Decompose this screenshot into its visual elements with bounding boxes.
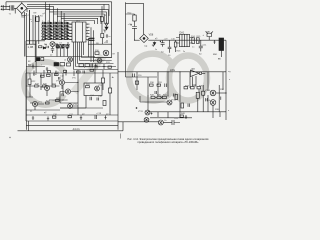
- resistor R29 vertical: [103, 101, 106, 106]
- svg-text:2к: 2к: [183, 51, 185, 53]
- svg-text:14: 14: [70, 30, 72, 32]
- svg-text:VТ11: VТ11: [138, 111, 144, 113]
- wire y102: [140, 96, 167, 102]
- cap C22: [219, 97, 221, 100]
- cap C12: [59, 77, 60, 80]
- svg-text:4: 4: [87, 36, 88, 38]
- resistor R16: [41, 75, 45, 77]
- wire y122 with transistor: [118, 121, 158, 123]
- resistor R12 on rail: [133, 15, 136, 21]
- cap right of R31: [165, 84, 167, 88]
- resistor R36 vertical: [196, 92, 199, 98]
- rail x158 x168 x180: [158, 72, 190, 118]
- svg-text:12: 12: [70, 36, 72, 38]
- op-amp DA2 triangle: [190, 70, 199, 76]
- nested loop 2: [50, 4, 107, 24]
- svg-text:т: т: [41, 65, 42, 67]
- top right drop rails: [104, 2, 112, 32]
- svg-text:к: к: [31, 21, 32, 23]
- resistor R6: [57, 46, 60, 48]
- resistor R21: [52, 85, 56, 87]
- transistor VT4: [44, 85, 49, 90]
- rail x134.5 tap: [126, 14, 135, 15]
- resistor R35: [197, 87, 201, 89]
- transistor VT11: [145, 110, 150, 115]
- left frame rail: [25, 12, 27, 130]
- resistor R34: [191, 87, 195, 89]
- resistor R on x102 rail: [101, 17, 104, 22]
- transistor VT3: [103, 50, 109, 56]
- component designator labels top-left section: [9, 12, 46, 24]
- page corner speck: [9, 137, 10, 138]
- diode on rail x106: [103, 25, 108, 32]
- small comps cluster below rails: [101, 34, 104, 38]
- transistor VT15: [158, 120, 163, 125]
- cap C10 vertical: [168, 40, 172, 53]
- keypad button labels above matrix rows: [42, 21, 65, 40]
- svg-text:б: б: [53, 38, 54, 40]
- nested loop 6: [64, 13, 94, 24]
- svg-text:кн: кн: [109, 36, 111, 38]
- top bus wires: [6, 2, 112, 10]
- box on rail x137: [135, 81, 138, 84]
- wire bridge top to top bus: [21, 2, 23, 3]
- junction dots net: [147, 95, 148, 96]
- resistor R39: [151, 96, 155, 98]
- wires bottom-left box: [26, 70, 86, 115]
- resistor R30: [150, 84, 154, 86]
- transistor VT1: [50, 42, 55, 47]
- diode VD9 below wire: [152, 42, 156, 47]
- left frame bottom verticals: [27, 121, 29, 131]
- svg-text:приведенного телефонного аппар: приведенного телефонного аппарата «ТК-10…: [138, 140, 200, 144]
- resistor R9: [95, 52, 99, 55]
- wire into bridge left: [135, 39, 140, 41]
- transistor VT6: [59, 80, 64, 85]
- lower bus lines: [74, 58, 119, 70]
- cap C13: [62, 94, 63, 97]
- transistor VT7: [32, 101, 37, 106]
- svg-text:0: 0: [53, 32, 54, 34]
- svg-text:9: 9: [42, 32, 43, 34]
- svg-text:1н: 1н: [192, 47, 194, 49]
- mid row comp cluster: [56, 45, 70, 49]
- right tick vertical x123: [122, 122, 124, 131]
- matrix column rails: [46, 23, 68, 40]
- cap C11 below: [198, 40, 203, 51]
- svg-text:6: 6: [42, 26, 43, 28]
- wire bridge right vertex down: [26, 8, 28, 12]
- wire y66.5 left: [26, 66, 45, 68]
- rail x148: [147, 77, 149, 111]
- svg-text:DA1: DA1: [180, 31, 185, 34]
- svg-text:+С18: +С18: [96, 113, 102, 115]
- cap C8 plus on rail: [130, 24, 137, 40]
- resistor R45 vertical: [181, 103, 184, 108]
- mid-left box frame: [26, 41, 95, 57]
- watermark letter O4: [169, 56, 207, 101]
- junction wire VT13 to frame: [216, 92, 226, 94]
- resistor R28 vertical: [109, 88, 112, 93]
- svg-text:3: 3: [53, 21, 54, 23]
- bold blobs pair y57.5: [37, 58, 40, 61]
- matrix cells (resistor+diode pairs): [42, 22, 69, 39]
- comps near x100 y68: [96, 64, 105, 69]
- long wire y72 to right section: [118, 71, 226, 73]
- comps upper row in box: [77, 71, 81, 73]
- junction dots mid: [63, 44, 64, 45]
- cap C20: [155, 91, 156, 94]
- right frame rail: [225, 40, 227, 120]
- IC DD1: [72, 22, 86, 42]
- caption lead tick: [120, 134, 122, 139]
- bold cap C6: [89, 38, 95, 40]
- wire matrix to IC left pins: [68, 24, 72, 44]
- resistor R27 vertical: [101, 78, 104, 83]
- bridge rectifier VD1: [17, 3, 27, 13]
- resistor R17: [47, 74, 51, 76]
- svg-text:1,4В: 1,4В: [28, 45, 34, 49]
- svg-text:1к: 1к: [155, 49, 157, 51]
- resistor R18: [55, 74, 59, 76]
- svg-text:4: 4: [59, 21, 60, 23]
- svg-text:5: 5: [87, 40, 88, 42]
- cap on wire y77: [133, 74, 135, 78]
- main wire right of bridge: [148, 39, 226, 41]
- speaker BA1 above wire: [206, 32, 214, 41]
- transistor VT14: [210, 100, 216, 106]
- resistor R20: [43, 85, 47, 87]
- wires bottom right mesh: [148, 72, 226, 118]
- resistor R23: [46, 102, 50, 104]
- svg-text:3: 3: [87, 32, 88, 34]
- bridge rectifier VD2: [140, 34, 149, 42]
- mid band bus y44: [26, 43, 112, 45]
- bottom frame line inner: [26, 124, 118, 126]
- junction dots on main wire: [193, 40, 194, 41]
- transistor junction dot: [105, 23, 107, 25]
- wire y77: [126, 76, 158, 78]
- svg-text:7: 7: [53, 26, 54, 28]
- svg-text:1: 1: [87, 24, 88, 26]
- resistor R37 box: [202, 91, 205, 95]
- diode VD6: [62, 46, 64, 48]
- wire y57.5 horizontal: [94, 57, 112, 59]
- IC DD1 right pins: [86, 24, 90, 39]
- mains plug X1: [1, 5, 3, 11]
- bottom-left box labels: [30, 72, 109, 116]
- resistor R41: [162, 96, 166, 98]
- svg-text:VТ14: VТ14: [205, 100, 211, 102]
- transistor VT5: [65, 89, 70, 94]
- wire y118: [150, 117, 192, 119]
- bottom frame line outer: [18, 130, 124, 132]
- left cluster second row comps: [56, 45, 59, 47]
- rail x125.5 lower: [125, 40, 127, 77]
- cap C9 below wire: [160, 40, 165, 47]
- transistor VT16: [68, 57, 73, 62]
- cap below VT1: [51, 47, 54, 54]
- wire rails x33 x35 x39: [33, 15, 39, 73]
- resistor R15 vertical: [196, 38, 199, 44]
- bold rail x29.5: [29, 10, 31, 44]
- diode VD5: [43, 47, 45, 49]
- rail x102 with components: [101, 6, 103, 33]
- inner box VT9 group: [84, 83, 102, 96]
- cap C23: [188, 104, 190, 107]
- keypad diode-resistor matrix rows: [41, 24, 72, 39]
- svg-text:2: 2: [87, 28, 88, 30]
- resistor R22: [28, 79, 31, 85]
- rails x95 x103 x110: [95, 66, 110, 115]
- component row y57-62 cluster: [79, 64, 84, 67]
- svg-text:в: в: [64, 38, 65, 40]
- resistor R14 vertical: [192, 38, 195, 44]
- pins stubs DA1: [176, 38, 193, 44]
- svg-text:Сф: Сф: [144, 45, 148, 48]
- resistor R44 vertical: [175, 95, 178, 100]
- svg-text:Ат: Ат: [112, 76, 114, 79]
- svg-text:+С11: +С11: [202, 45, 208, 47]
- watermark diagonal stroke: [74, 56, 103, 92]
- svg-text:-14-Сх: -14-Сх: [72, 127, 80, 131]
- nested loop 3: [53, 6, 104, 24]
- cap C4 plus: [46, 44, 49, 48]
- bottom-right section labels: [138, 67, 225, 122]
- IC DD1 bottom pin fan: [74, 42, 84, 70]
- junction dots box: [62, 99, 63, 100]
- caption line 1: [128, 137, 210, 144]
- transformer T1: [3, 5, 14, 10]
- svg-text:DD1: DD1: [76, 20, 80, 22]
- plus marks bottom: [136, 107, 153, 115]
- resistor R19: [35, 85, 39, 87]
- comps under y63: [32, 64, 48, 72]
- nested loop 4: [57, 8, 101, 24]
- stub below wire x207: [213, 40, 215, 44]
- svg-text:ВФ: ВФ: [34, 12, 37, 15]
- resistor R33: [184, 87, 188, 89]
- transistor VT10: [167, 100, 172, 105]
- wire bridge bottom down: [22, 14, 27, 16]
- svg-text:а: а: [42, 38, 43, 40]
- cap C25: [206, 98, 208, 101]
- mid section component labels: [28, 15, 116, 69]
- svg-text:2: 2: [48, 21, 49, 23]
- IC DD1 left pins: [69, 24, 73, 39]
- top-right section labels: [128, 13, 219, 58]
- vertical rails right of IC: [89, 27, 94, 62]
- svg-text:VТ10: VТ10: [171, 100, 177, 102]
- svg-text:1: 1: [42, 21, 43, 23]
- row above box comps: [54, 63, 59, 66]
- box top tick comps: [34, 70, 74, 76]
- wire VT1 to right: [55, 43, 58, 45]
- resistor R24: [56, 100, 60, 102]
- IC DA1: [180, 34, 190, 46]
- wire transformer to bridge: [14, 8, 17, 13]
- svg-text:5: 5: [64, 21, 65, 23]
- svg-text:8: 8: [64, 26, 65, 28]
- junction dots row: [156, 97, 157, 98]
- resistor R13 vertical: [174, 42, 177, 47]
- transistor VT13: [210, 90, 216, 96]
- cap C5: [67, 46, 68, 48]
- top-right rail pair: [126, 2, 144, 40]
- transistor VT8: [68, 104, 73, 109]
- watermark letter C1: [24, 62, 64, 105]
- watermark letter C3: [129, 54, 173, 101]
- resistor R near x37 y18: [36, 17, 39, 22]
- rail x111.7 mid: [111, 32, 113, 58]
- nested loop 5: [61, 11, 97, 24]
- bottom row comps in box: [32, 116, 49, 121]
- mic BM1: [219, 38, 224, 51]
- bottom-left box frame: [26, 52, 118, 130]
- resistor R5: [39, 46, 42, 48]
- svg-text:VD8: VD8: [149, 33, 154, 36]
- wire rows lower: [26, 108, 118, 115]
- resistor R31: [157, 84, 161, 86]
- resistor R40: [157, 96, 161, 98]
- rail x137: [136, 72, 138, 90]
- cap C21: [174, 94, 176, 97]
- svg-text:16: 16: [70, 24, 72, 26]
- comps right of VT15: [172, 120, 180, 125]
- IC DD1 pin labels: [70, 20, 89, 42]
- svg-text:VТ13: VТ13: [205, 90, 211, 92]
- nested loop 1: [46, 2, 109, 24]
- transistor VT11b: [144, 117, 149, 122]
- transistor VT17: [97, 58, 102, 63]
- svg-text:ВУ: ВУ: [28, 63, 32, 67]
